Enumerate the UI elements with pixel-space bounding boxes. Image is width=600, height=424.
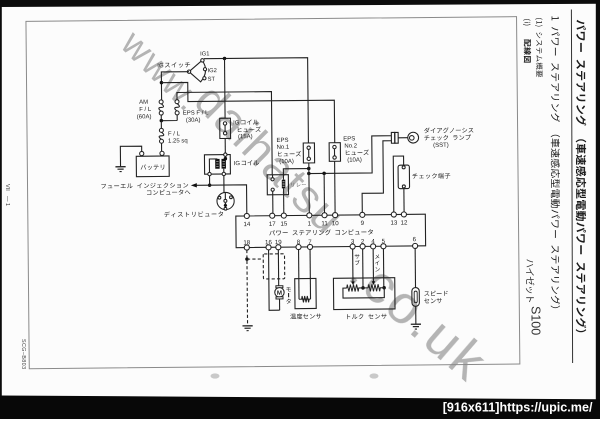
node junction fuse1-bus xyxy=(307,172,311,176)
wire to fuel injection computer with arrow xyxy=(191,183,247,214)
wire pin 3 wiper (サブ) xyxy=(351,249,355,285)
label ST xyxy=(208,77,216,83)
svg-text:No.1: No.1 xyxy=(277,145,290,151)
svg-text:8: 8 xyxy=(297,239,301,246)
fusible link F/L 1.25sq xyxy=(159,121,164,152)
svg-text:9: 9 xyxy=(361,220,365,227)
svg-text:2: 2 xyxy=(361,238,365,245)
ground shield xyxy=(242,326,252,331)
ignition coil T1 (IGコイル) xyxy=(204,153,230,176)
wire check connector bottom to terminal 12 xyxy=(403,189,405,212)
fusible link AM F/L 60A xyxy=(159,100,164,115)
wire pin 4 wiper (メイン) xyxy=(371,249,375,285)
scan artifact: left black edge xyxy=(0,0,2,419)
svg-text:15: 15 xyxy=(280,221,288,228)
wire pin 5 to torque sensor xyxy=(382,249,386,290)
svg-text:IG2: IG2 xyxy=(208,68,217,74)
section line 1 パワーステアリング (vertical) xyxy=(551,16,560,308)
wire pin 19 to motor xyxy=(277,250,279,287)
wire switch input from AM fuse xyxy=(161,72,189,100)
wire relay coil to terminal 15 xyxy=(283,188,285,213)
fusible link EPS F/L 30A xyxy=(175,100,180,115)
section line (i) 配線図 (vertical) xyxy=(523,19,531,62)
node junction on IG1 bus xyxy=(223,57,227,61)
svg-text:5: 5 xyxy=(382,238,386,245)
doc number SCG-B803 (vertical) xyxy=(20,339,26,369)
svg-text:(60A): (60A) xyxy=(137,114,152,120)
svg-text:3: 3 xyxy=(351,238,355,245)
speed sensor (スピードセンサ reed switch) xyxy=(412,287,420,306)
wire lamp to terminal 9 xyxy=(362,141,392,213)
svg-text:F / L: F / L xyxy=(139,107,152,113)
power steering computer U1 (パワーステアリング コンピュータ) xyxy=(236,214,426,247)
pin 11 (computer top terminal) xyxy=(321,213,328,228)
wire tap down to terminal 11 xyxy=(323,173,325,212)
wire IG1 bus to EPS No.1 fuse xyxy=(204,58,308,144)
label AM F/L (60A) xyxy=(137,100,152,121)
label メイン (vertical) xyxy=(375,254,380,271)
svg-text:VII: VII xyxy=(4,184,10,191)
pin 13 (computer top terminal) xyxy=(390,212,398,227)
svg-text:(10A): (10A) xyxy=(347,158,362,164)
svg-text:19: 19 xyxy=(275,239,283,246)
svg-text:(30A): (30A) xyxy=(186,118,201,124)
label EPS F/L (30A) xyxy=(183,110,209,123)
pin 19 (computer bottom terminal) xyxy=(275,239,283,250)
wire battery negative to ground xyxy=(120,146,141,167)
torque sensor (トルク センサ) xyxy=(333,278,395,310)
label リレー xyxy=(291,183,306,187)
label IG2 xyxy=(208,68,217,74)
diagnosis check lamp L1 (SST) xyxy=(391,132,418,143)
svg-text:EPS: EPS xyxy=(276,138,288,144)
svg-text:(SST): (SST) xyxy=(433,143,449,149)
wire pin 2 to torque sensor xyxy=(361,249,365,290)
wire relay contact to terminal 17 xyxy=(272,191,274,213)
pin 10 (computer top terminal) xyxy=(332,213,340,228)
label チェック端子 xyxy=(412,173,450,179)
banner url text xyxy=(443,400,593,414)
wire EPS F/L top to EPS relay contact xyxy=(177,92,272,176)
column rule (header underline) xyxy=(571,10,572,364)
label パワー ステアリング コンピュータ xyxy=(269,229,373,236)
wire EPS No.1 fuse to terminal 1 xyxy=(308,163,310,213)
wire pin 8 into temperature sensor xyxy=(298,249,300,299)
pin 3 (computer bottom terminal) xyxy=(350,238,355,249)
label スピード センサ xyxy=(424,291,448,304)
label IGコイルヒューズ (15A) xyxy=(233,119,261,140)
fuse IGコイルヒューズ 15A xyxy=(220,118,231,138)
relay RY1 (リレー) xyxy=(267,175,288,195)
pin 16 (computer bottom terminal) xyxy=(265,239,273,250)
svg-text:IG: IG xyxy=(234,161,241,167)
svg-text:10: 10 xyxy=(332,220,340,227)
pin 8 (computer bottom terminal) xyxy=(296,239,301,250)
wire pin 6 to speed sensor xyxy=(414,248,416,287)
wire IG coil secondary to distributor xyxy=(223,176,225,193)
svg-text:18: 18 xyxy=(243,239,251,246)
wire speed sensor to ground xyxy=(415,306,417,324)
temperature sensor RT1 (温度センサ) xyxy=(295,278,316,308)
svg-text:1: 1 xyxy=(308,220,312,227)
svg-text:4: 4 xyxy=(371,238,375,245)
node junction terminal 11 tap xyxy=(322,172,326,176)
ground speed sensor xyxy=(411,324,421,329)
svg-text:[916x611]https://upic.me/: [916x611]https://upic.me/ xyxy=(443,400,593,414)
label IGスイッチ xyxy=(157,62,190,69)
pin 9 (computer top terminal) xyxy=(360,212,365,227)
label EPS No.1 ヒューズ (10A) xyxy=(276,138,301,165)
node junction on fuel injection line xyxy=(208,183,212,187)
battery BAT xyxy=(136,151,169,177)
svg-text:F / L: F / L xyxy=(168,131,181,137)
node junction below AM fuse xyxy=(160,119,164,123)
pin 7 (computer bottom terminal) xyxy=(307,239,312,250)
node junction fuse1-coil xyxy=(307,167,311,171)
section line (1) システム概要 (vertical) xyxy=(535,18,543,77)
pin 15 (computer top terminal) xyxy=(280,213,288,228)
pin 5 (computer bottom terminal) xyxy=(381,238,386,249)
svg-text:— 1: — 1 xyxy=(4,196,10,206)
svg-text:12: 12 xyxy=(401,219,409,226)
scan artifact: right black edge xyxy=(596,0,600,419)
wire shield drain from pin 18 (dashed) xyxy=(245,250,264,326)
wire check connector top to terminal 13 xyxy=(393,156,404,212)
svg-text:No.2: No.2 xyxy=(344,143,357,149)
svg-text:EPS F / L: EPS F / L xyxy=(183,110,209,116)
label 温度センサ xyxy=(290,313,321,319)
scan artifact: bottom smudges xyxy=(211,373,379,378)
handwritten ハイゼット S100 (vertical) xyxy=(526,259,543,335)
svg-text:IG: IG xyxy=(233,121,240,127)
svg-text:6: 6 xyxy=(413,236,417,243)
pin 6 (computer bottom terminal) xyxy=(412,236,417,248)
label フューエル インジェクション コンピュータへ xyxy=(101,182,190,195)
svg-text:7: 7 xyxy=(308,239,312,246)
svg-text:17: 17 xyxy=(269,221,277,228)
wire IG coil primary to fuel injection line xyxy=(209,176,211,185)
pin 17 (computer top terminal) xyxy=(269,213,277,228)
node junction above AM fuse xyxy=(160,81,164,85)
label モータ (vertical) xyxy=(286,287,291,304)
ground battery xyxy=(115,167,125,172)
svg-text:ST: ST xyxy=(208,77,216,83)
distributor (ディストリビュータ) xyxy=(217,192,234,210)
pin 4 (computer bottom terminal) xyxy=(370,238,375,249)
svg-text:M: M xyxy=(277,290,282,297)
svg-text:(10A): (10A) xyxy=(279,159,294,165)
fuse EPS No.2 10A xyxy=(329,143,340,162)
svg-text:1.25 sq: 1.25 sq xyxy=(168,138,188,144)
svg-text:14: 14 xyxy=(243,221,251,228)
wire junction to EPS No.2 feed xyxy=(161,81,334,144)
pin 2 (computer bottom terminal) xyxy=(360,238,365,249)
label トルク センサ xyxy=(347,314,387,320)
scan artifact: top black strip xyxy=(0,0,600,7)
pin 12 (computer top terminal) xyxy=(400,212,408,227)
page number VII-1 (vertical) xyxy=(4,184,10,206)
wire pin 7 into temperature sensor xyxy=(309,249,311,299)
header パワーステアリング (vertical) xyxy=(576,20,587,332)
check connector (チェック端子) xyxy=(398,165,410,189)
svg-text:13: 13 xyxy=(390,220,398,227)
pin 18 (computer bottom terminal) xyxy=(243,239,251,250)
svg-text:(15A): (15A) xyxy=(238,134,253,140)
label ダイアグノーシス チェック ランプ (SST) xyxy=(424,127,474,149)
wire EPS No.1 fuse junction to relay coil xyxy=(283,169,309,180)
label F/L 1.25 sq xyxy=(168,131,188,144)
wire fuse junction bus to diagnosis lamp xyxy=(308,136,391,174)
svg-text:AM: AM xyxy=(139,100,148,106)
shield box around motor leads (dashed) xyxy=(263,254,285,279)
pin 1 (computer top terminal) xyxy=(307,213,312,228)
ignition switch SW1 (IGスイッチ) xyxy=(187,59,207,82)
svg-text:IG: IG xyxy=(157,63,164,69)
svg-text:16: 16 xyxy=(265,239,273,246)
svg-text:EPS: EPS xyxy=(343,136,355,142)
label ディストリビュータ xyxy=(164,211,223,217)
bottom black banner xyxy=(0,396,600,420)
svg-text:SCG–B803: SCG–B803 xyxy=(20,339,26,369)
wire EPS No.2 fuse to terminal 10 xyxy=(334,161,336,212)
label IGコイル xyxy=(234,160,259,167)
wire IG1 junction down to IG coil fuse xyxy=(224,58,227,118)
svg-text:11: 11 xyxy=(321,220,328,227)
label バッテリ xyxy=(141,164,165,170)
wire fuse bottoms junction xyxy=(161,115,177,121)
svg-text:IG1: IG1 xyxy=(200,51,209,57)
fuse EPS No.1 10A xyxy=(303,143,314,163)
svg-text:S100: S100 xyxy=(529,306,543,335)
motor M1 (モータ) xyxy=(275,286,285,311)
wire pin 16 to motor return xyxy=(269,250,280,311)
label IG1 xyxy=(200,51,209,57)
page frame border xyxy=(26,17,520,369)
label EPS No.2 ヒューズ (10A) xyxy=(343,136,369,163)
pin 14 (computer top terminal) xyxy=(243,213,251,228)
label サブ (vertical) xyxy=(355,254,360,265)
watermark www (diagonal) xyxy=(113,22,500,393)
wire IG coil fuse to IG coil xyxy=(224,138,226,154)
